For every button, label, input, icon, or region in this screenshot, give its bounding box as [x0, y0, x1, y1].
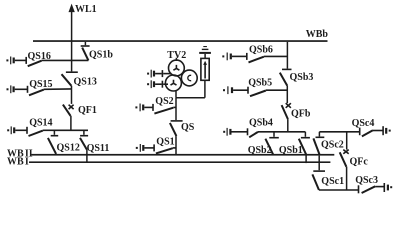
svg-text:QFb: QFb [291, 108, 311, 119]
svg-text:QFc: QFc [350, 156, 369, 167]
svg-text:QS: QS [181, 122, 195, 133]
svg-text:QS11: QS11 [87, 143, 110, 154]
svg-text:QS1: QS1 [156, 136, 174, 147]
svg-text:QS13: QS13 [74, 77, 97, 88]
svg-text:QSc2: QSc2 [321, 139, 344, 150]
svg-text:QSb4: QSb4 [249, 117, 273, 128]
svg-text:QS2: QS2 [155, 96, 173, 107]
svg-text:QSb3: QSb3 [290, 72, 314, 83]
svg-text:TV2: TV2 [167, 50, 186, 61]
svg-text:QS12: QS12 [57, 142, 80, 153]
svg-text:QS16: QS16 [28, 51, 51, 62]
svg-text:WBb: WBb [306, 29, 329, 40]
svg-text:QSb1: QSb1 [279, 145, 303, 156]
svg-text:QSc1: QSc1 [321, 176, 344, 187]
svg-text:QSc4: QSc4 [352, 118, 375, 129]
svg-text:QF1: QF1 [78, 105, 97, 116]
svg-text:WL1: WL1 [75, 4, 97, 15]
svg-text:QSb5: QSb5 [248, 77, 272, 88]
svg-text:QSb6: QSb6 [249, 44, 273, 55]
svg-text:QSb2: QSb2 [248, 145, 272, 156]
svg-text:WBI: WBI [7, 156, 29, 167]
svg-text:QSc3: QSc3 [355, 175, 378, 186]
svg-text:QS1b: QS1b [89, 50, 113, 61]
svg-text:QS15: QS15 [29, 79, 52, 90]
svg-text:QS14: QS14 [29, 118, 52, 129]
